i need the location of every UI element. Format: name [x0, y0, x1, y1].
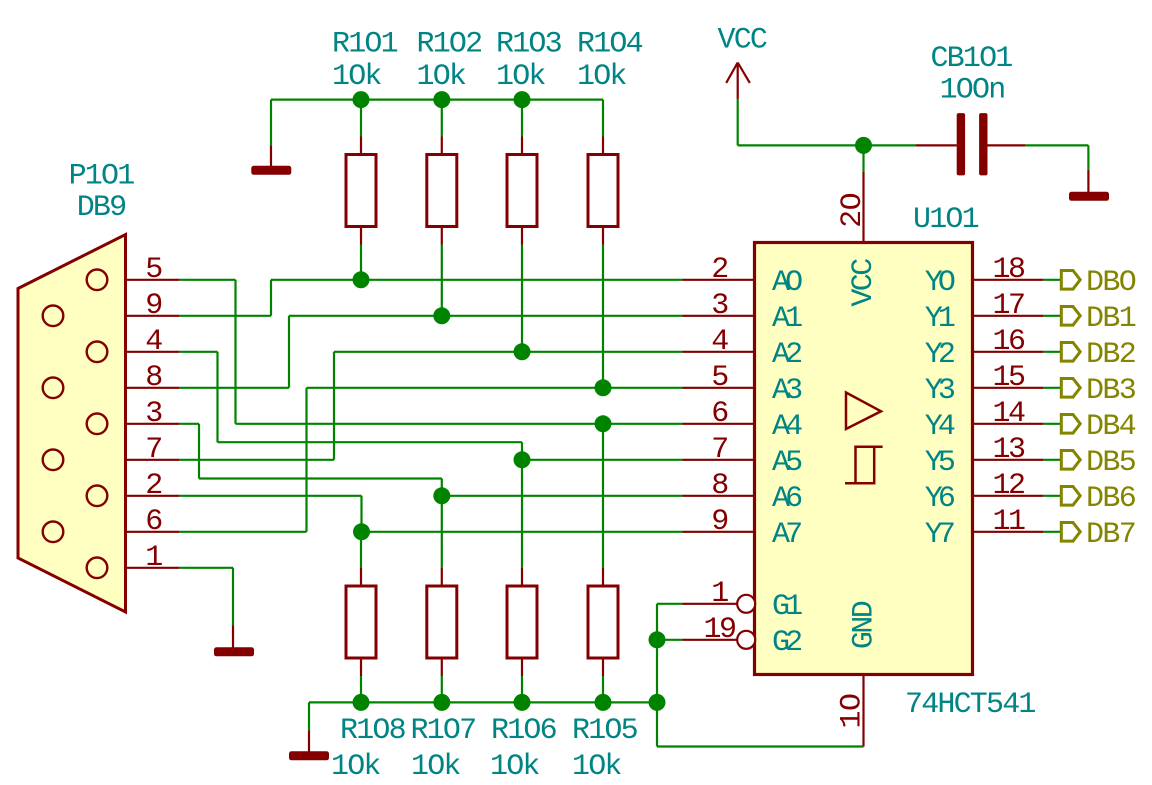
svg-text:9: 9	[711, 505, 727, 539]
svg-text:DB4: DB4	[1086, 410, 1136, 444]
svg-text:DB2: DB2	[1086, 338, 1135, 372]
svg-text:DB1: DB1	[1086, 302, 1136, 336]
svg-text:1: 1	[711, 577, 728, 611]
svg-text:P1O1: P1O1	[69, 159, 135, 193]
svg-text:R1O4: R1O4	[577, 27, 643, 61]
svg-text:2: 2	[711, 253, 727, 287]
svg-text:Y1: Y1	[925, 302, 955, 336]
svg-text:19: 19	[703, 613, 735, 647]
svg-text:13: 13	[992, 433, 1025, 467]
svg-text:DBO: DBO	[1086, 266, 1136, 300]
svg-text:AO: AO	[772, 266, 802, 300]
svg-text:4: 4	[711, 325, 728, 359]
svg-text:G2: G2	[772, 626, 801, 660]
svg-text:R1O1: R1O1	[332, 27, 398, 61]
svg-text:1Ok: 1Ok	[490, 750, 539, 784]
svg-text:Y2: Y2	[925, 338, 954, 372]
svg-text:DB9: DB9	[77, 191, 126, 225]
svg-text:U1O1: U1O1	[913, 203, 979, 237]
svg-text:A5: A5	[772, 446, 802, 480]
svg-text:A7: A7	[772, 518, 801, 552]
svg-text:YO: YO	[925, 266, 955, 300]
svg-text:VCC: VCC	[718, 24, 767, 58]
svg-text:6: 6	[711, 397, 728, 431]
svg-text:1Ok: 1Ok	[332, 60, 381, 94]
svg-text:1Ok: 1Ok	[331, 750, 380, 784]
svg-text:7: 7	[711, 433, 727, 467]
svg-text:2O: 2O	[836, 193, 870, 228]
svg-text:2: 2	[145, 469, 161, 503]
svg-text:GND: GND	[848, 601, 882, 649]
svg-text:9: 9	[145, 289, 161, 323]
svg-text:1Ok: 1Ok	[417, 60, 466, 94]
svg-text:1OOn: 1OOn	[940, 74, 1005, 108]
svg-text:A2: A2	[772, 338, 801, 372]
svg-text:15: 15	[992, 361, 1025, 395]
svg-text:R1O3: R1O3	[496, 27, 562, 61]
svg-text:Y4: Y4	[925, 410, 955, 444]
svg-text:1O: 1O	[836, 693, 870, 728]
svg-text:CB1O1: CB1O1	[930, 42, 1012, 76]
svg-text:8: 8	[145, 361, 162, 395]
svg-text:Y7: Y7	[925, 518, 954, 552]
svg-text:17: 17	[992, 289, 1024, 323]
svg-text:5: 5	[711, 361, 728, 395]
svg-text:R1O2: R1O2	[417, 27, 482, 61]
svg-text:Y3: Y3	[925, 374, 955, 408]
svg-text:R1O8: R1O8	[340, 714, 406, 748]
svg-text:DB3: DB3	[1086, 374, 1136, 408]
svg-text:A3: A3	[772, 374, 802, 408]
svg-text:R1O6: R1O6	[491, 714, 557, 748]
svg-text:3: 3	[145, 397, 162, 431]
svg-text:A4: A4	[772, 410, 802, 444]
svg-text:A6: A6	[772, 482, 802, 516]
svg-text:DB6: DB6	[1086, 482, 1136, 516]
svg-text:4: 4	[145, 325, 162, 359]
svg-text:Y5: Y5	[925, 446, 955, 480]
svg-text:Y6: Y6	[925, 482, 955, 516]
svg-text:11: 11	[992, 505, 1025, 539]
svg-text:A1: A1	[772, 302, 802, 336]
svg-text:5: 5	[145, 253, 162, 287]
svg-text:3: 3	[711, 289, 728, 323]
svg-text:12: 12	[992, 469, 1024, 503]
svg-text:18: 18	[992, 253, 1025, 287]
svg-text:VCC: VCC	[847, 259, 881, 307]
svg-text:7: 7	[145, 433, 161, 467]
svg-text:8: 8	[711, 469, 728, 503]
svg-text:1: 1	[145, 541, 162, 575]
svg-text:DB5: DB5	[1086, 446, 1136, 480]
svg-text:DB7: DB7	[1086, 518, 1135, 552]
svg-text:1Ok: 1Ok	[496, 60, 545, 94]
svg-text:G1: G1	[772, 590, 802, 624]
svg-text:16: 16	[992, 325, 1025, 359]
svg-text:14: 14	[992, 397, 1025, 431]
svg-text:R1O5: R1O5	[572, 714, 638, 748]
svg-text:1Ok: 1Ok	[577, 60, 626, 94]
svg-text:1Ok: 1Ok	[411, 750, 460, 784]
svg-text:R1O7: R1O7	[411, 714, 476, 748]
svg-text:74HCT541: 74HCT541	[905, 688, 1035, 722]
svg-text:6: 6	[145, 505, 162, 539]
svg-text:1Ok: 1Ok	[572, 750, 621, 784]
